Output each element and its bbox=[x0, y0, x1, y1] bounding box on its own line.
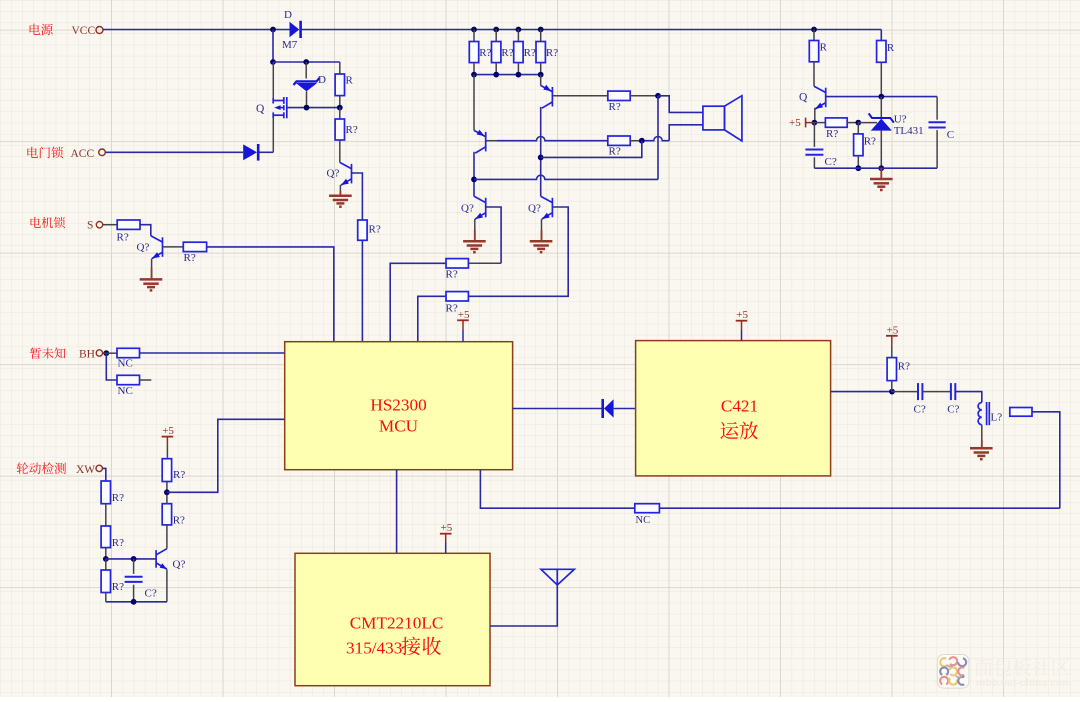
svg-text:315/433: 315/433 bbox=[346, 639, 402, 658]
wire emitter rail bbox=[106, 601, 167, 603]
wire Q emitter to +5 node bbox=[814, 108, 816, 123]
wire ACC bbox=[105, 151, 243, 153]
svg-text:+5: +5 bbox=[789, 117, 801, 129]
ground (regulator) bbox=[870, 179, 893, 190]
node ref bbox=[855, 120, 861, 126]
wire ACC diode to MOSFET bbox=[260, 151, 274, 153]
wire MCU right pin bbox=[513, 408, 602, 410]
node rail R1 bbox=[471, 27, 477, 33]
node collector tap bbox=[164, 489, 170, 495]
wire divider bbox=[105, 504, 107, 526]
wire VCC rail left of D bbox=[103, 29, 290, 31]
svg-text:+5: +5 bbox=[441, 522, 453, 534]
svg-text:R?: R? bbox=[826, 128, 838, 140]
wire ground stem bbox=[880, 168, 882, 179]
svg-text:HS2300: HS2300 bbox=[370, 396, 426, 415]
resistor NC (BH branch, open) bbox=[117, 375, 140, 384]
wire MOSFET source to sub-rail bbox=[272, 62, 274, 98]
svg-text:R?: R? bbox=[501, 47, 513, 59]
IC CMT2210LC receiver block bbox=[295, 553, 490, 685]
node speaker bottom net bbox=[639, 138, 645, 144]
svg-text:Q?: Q? bbox=[461, 203, 474, 215]
svg-text:C?: C? bbox=[145, 588, 157, 600]
svg-text:ACC: ACC bbox=[71, 148, 95, 160]
svg-text:R?: R? bbox=[173, 515, 185, 527]
svg-text:R?: R? bbox=[479, 47, 491, 59]
wire R? to MCU top pin bbox=[207, 247, 334, 342]
resistor NC (bus series) bbox=[635, 504, 660, 513]
inductor L? bbox=[978, 402, 989, 425]
node TL431 anode bbox=[878, 165, 884, 171]
resistor R? (parallel bank 4) bbox=[540, 30, 542, 42]
svg-text:+5: +5 bbox=[736, 309, 748, 321]
wire bus to right riser bbox=[659, 507, 1059, 509]
svg-text:Q: Q bbox=[256, 103, 265, 115]
ground (output NPN right) bbox=[530, 241, 553, 252]
wire diode to C421 bbox=[614, 408, 636, 410]
svg-text:S: S bbox=[87, 219, 93, 231]
wire to base node bbox=[105, 548, 107, 559]
wire speaker-net down to feedback bbox=[657, 96, 659, 180]
wire Q?D base right-down bbox=[468, 207, 568, 296]
wire MCU bottom pin to bus bbox=[480, 470, 634, 509]
IC HS2300 MCU block bbox=[285, 342, 513, 470]
node PNP-A collector bbox=[471, 177, 477, 183]
svg-text:C?: C? bbox=[914, 403, 926, 415]
node PNP-B collector tap bbox=[538, 155, 544, 161]
node rail R4 bbox=[538, 27, 544, 33]
wire BH to NC bbox=[103, 352, 117, 354]
wire Q? base to R? chain bbox=[352, 173, 363, 220]
resistor R? (speaker top) bbox=[608, 91, 630, 100]
svg-text:R: R bbox=[346, 75, 354, 87]
svg-text:+5: +5 bbox=[162, 425, 174, 437]
resistor R? (output pullup) bbox=[887, 358, 896, 381]
resistor R? (ref divider top) bbox=[814, 122, 825, 124]
capacitor C? (base filter) bbox=[133, 559, 135, 574]
wire speaker top lead bbox=[658, 96, 703, 113]
resistor R? (ref divider bottom) bbox=[857, 123, 859, 134]
resistor R? (Q?D base) bbox=[446, 292, 468, 301]
wire VCC rail right of D bbox=[302, 29, 881, 31]
wire BH branch down bbox=[106, 353, 117, 380]
svg-text:NC: NC bbox=[118, 358, 133, 370]
wire base line bbox=[106, 558, 156, 560]
wire base line into R? bbox=[468, 262, 501, 264]
wire Q? emitter down bbox=[166, 569, 168, 601]
wire Q? emitter to ground bbox=[151, 259, 153, 280]
svg-text:BH: BH bbox=[79, 349, 95, 361]
node speaker top net bbox=[655, 93, 661, 99]
node gate-R junction bbox=[337, 105, 343, 111]
svg-text:XW: XW bbox=[76, 464, 95, 476]
svg-text:R?: R? bbox=[546, 47, 558, 59]
svg-text:R?: R? bbox=[609, 101, 621, 113]
wire Q base line to cap C bbox=[826, 96, 937, 98]
wire R? to MCU bbox=[418, 296, 446, 341]
svg-text:R?: R? bbox=[173, 469, 185, 481]
ground (S input) bbox=[140, 279, 163, 290]
resistor R? (base to emitter) bbox=[105, 559, 107, 570]
svg-text:C?: C? bbox=[825, 156, 837, 168]
wire C421 output bbox=[831, 391, 892, 393]
wire to ref node bbox=[847, 122, 858, 124]
wire feedback line y179 with hop bbox=[474, 175, 658, 179]
transistor Q (PNP lower) bbox=[473, 75, 475, 131]
node rail cap bbox=[131, 599, 137, 605]
wire R? to Q? collector bbox=[140, 225, 151, 236]
resistor R? (S input) bbox=[117, 220, 140, 229]
wire PNP-A base line y140.7 with hops bbox=[487, 140, 498, 142]
node +5 out bbox=[812, 120, 818, 126]
wire PNP-B base to R? bbox=[552, 95, 607, 97]
node BH bbox=[103, 350, 109, 356]
svg-text:R?: R? bbox=[112, 581, 124, 593]
svg-text:TL431: TL431 bbox=[894, 125, 924, 137]
speaker LS bbox=[703, 96, 742, 141]
wire tap to MCU left pin bbox=[167, 419, 285, 492]
resistor R? (parallel bank 3) bbox=[517, 30, 519, 42]
resistor R? (divider mid) bbox=[101, 526, 110, 548]
svg-text:NC: NC bbox=[118, 385, 133, 397]
wire Q? base to R? bbox=[163, 246, 184, 248]
label 轮动检测 bbox=[17, 462, 66, 474]
IC C421 op-amp block bbox=[636, 341, 831, 476]
wire Q?C base right-down bbox=[486, 207, 501, 263]
resistor R? (speaker bottom) bbox=[608, 136, 630, 145]
svg-text:R?: R? bbox=[446, 303, 458, 315]
wire NC to MCU left pin bbox=[140, 352, 285, 354]
IC U? TL431 shunt regulator bbox=[880, 97, 882, 118]
wire R? to speaker top lead bbox=[630, 95, 658, 97]
wire port to bottom bus bbox=[1032, 412, 1060, 508]
svg-text:R?: R? bbox=[609, 146, 621, 158]
node sub-rail left bbox=[270, 59, 276, 65]
capacitor C? (output filter) bbox=[813, 123, 815, 147]
node zener top bbox=[303, 59, 309, 65]
wire C2 to L bbox=[955, 392, 982, 403]
diode (detector) bbox=[601, 399, 604, 418]
svg-text:Q?: Q? bbox=[173, 559, 186, 571]
node VCC-rail junction bbox=[270, 27, 276, 33]
label 电门锁 bbox=[27, 147, 63, 159]
svg-text:+5: +5 bbox=[887, 324, 899, 336]
svg-text:Q?: Q? bbox=[327, 168, 340, 180]
wire R? to MCU pin bbox=[361, 240, 363, 341]
ground (MOSFET driver) bbox=[329, 196, 352, 207]
diode (ACC blocking) bbox=[243, 144, 257, 160]
wire speaker bottom lead bbox=[669, 125, 703, 141]
resistor R? (Q? collector) bbox=[339, 108, 341, 119]
svg-text:M7: M7 bbox=[282, 39, 298, 51]
svg-text:C421: C421 bbox=[721, 397, 758, 416]
svg-text:U?: U? bbox=[894, 114, 907, 126]
wire to C1 bbox=[892, 391, 918, 393]
wire Q? emitter to ground bbox=[339, 185, 341, 196]
resistor R? (Q?C base) bbox=[446, 259, 468, 268]
svg-text:D: D bbox=[284, 9, 292, 21]
wire C1-C2 bbox=[922, 391, 951, 393]
svg-text:R?: R? bbox=[898, 361, 910, 373]
resistor R? (driver base series) bbox=[358, 220, 367, 240]
zener diode D (gate protection) bbox=[305, 62, 307, 79]
node cap top bbox=[131, 556, 137, 562]
wire ref to TL431 bbox=[858, 122, 877, 124]
wire gate line y107.6 bbox=[288, 107, 340, 109]
svg-text:R: R bbox=[887, 42, 895, 54]
capacitor C? (coupling 2) bbox=[951, 383, 955, 400]
node bank out 3 bbox=[516, 72, 522, 78]
resistor R? (parallel bank 1) bbox=[473, 30, 475, 42]
ground (antenna filter) bbox=[970, 448, 993, 459]
svg-text:MCU: MCU bbox=[379, 417, 419, 436]
svg-text:R?: R? bbox=[369, 224, 381, 236]
resistor R? (divider top) bbox=[101, 481, 110, 504]
svg-text:D: D bbox=[318, 74, 326, 86]
wire PNP-A collector down bbox=[473, 152, 475, 197]
transistor Q (PNP upper, speaker top) bbox=[540, 75, 542, 86]
ground (output NPN left) bbox=[463, 241, 486, 252]
capacitor C? (coupling 1) bbox=[918, 383, 922, 400]
node rail R2 bbox=[493, 27, 499, 33]
node bank out 2 bbox=[493, 72, 499, 78]
wire Q?D emitter to ground bbox=[541, 219, 543, 241]
svg-text:+5: +5 bbox=[458, 309, 470, 321]
svg-text:R?: R? bbox=[184, 252, 196, 264]
wire rail corner to R2 bbox=[880, 30, 882, 41]
resistor R (TL431 feed) bbox=[877, 41, 886, 63]
svg-text:R?: R? bbox=[112, 537, 124, 549]
svg-text:R?: R? bbox=[112, 492, 124, 504]
watermark logo 面包板社区 bbox=[937, 655, 969, 689]
svg-text:CMT2210LC: CMT2210LC bbox=[350, 614, 444, 633]
wire S to R? bbox=[103, 224, 117, 226]
wire Q? collector up bbox=[166, 525, 168, 549]
wire sub-rail y62 bbox=[273, 61, 340, 63]
svg-text:NC: NC bbox=[636, 515, 651, 526]
node divider bottom bbox=[855, 165, 861, 171]
svg-text:C?: C? bbox=[947, 403, 959, 415]
label 暂未知 bbox=[30, 347, 66, 358]
svg-text:R: R bbox=[820, 42, 828, 54]
svg-text:Q: Q bbox=[799, 91, 808, 103]
node output tap bbox=[889, 389, 895, 395]
wire MCU to CMT bbox=[396, 470, 398, 554]
wire collector node bbox=[166, 482, 168, 504]
node reg R1 top bbox=[811, 27, 817, 33]
svg-text:VCC: VCC bbox=[72, 25, 96, 37]
svg-text:C: C bbox=[947, 129, 954, 141]
capacitor C (base bypass) bbox=[936, 97, 938, 120]
port (antenna feed) bbox=[1010, 408, 1032, 417]
node base node bbox=[103, 556, 109, 562]
node bank out 4 bbox=[538, 72, 544, 78]
label 电源 bbox=[30, 24, 53, 36]
resistor R? (collector load high) bbox=[162, 459, 171, 482]
wire R? to bottom-lead node bbox=[630, 140, 642, 142]
wire R? to MCU bbox=[390, 263, 446, 341]
watermark text bbox=[975, 658, 1069, 676]
wire XW down bbox=[103, 468, 106, 481]
node rail R3 bbox=[516, 27, 522, 33]
svg-text:Q?: Q? bbox=[137, 242, 150, 254]
wire NC open stub bbox=[140, 379, 152, 381]
svg-text:Q?: Q? bbox=[528, 203, 541, 215]
wire PNP-B collector down bbox=[540, 107, 542, 196]
resistor R? (collector load low) bbox=[162, 504, 171, 525]
node bank out 1 bbox=[471, 72, 477, 78]
wire CMT to antenna bbox=[490, 585, 557, 626]
svg-text:R?: R? bbox=[524, 47, 536, 59]
svg-text:R?: R? bbox=[346, 124, 358, 136]
resistor R? (parallel bank 2) bbox=[495, 30, 497, 42]
svg-text:R?: R? bbox=[446, 269, 458, 281]
wire VCC to sub-rail bbox=[272, 30, 274, 63]
resistor NC (BH series) bbox=[117, 348, 140, 357]
svg-text:R?: R? bbox=[117, 232, 129, 244]
label 电机锁 bbox=[31, 217, 66, 228]
resistor R? (base output) bbox=[183, 242, 206, 251]
svg-text:R?: R? bbox=[864, 136, 876, 148]
wire bottom net to PNP-B collector tap bbox=[541, 141, 642, 158]
resistor R (reg collector) bbox=[813, 30, 815, 41]
node zener bottom bbox=[304, 105, 310, 111]
wire resistor-bank bottom rail bbox=[474, 74, 541, 76]
antenna bbox=[541, 569, 574, 585]
diode D M7 bbox=[290, 22, 300, 38]
svg-text:L?: L? bbox=[991, 412, 1003, 424]
node base-R junction bbox=[878, 94, 884, 100]
svg-text:mbb.eet-china.com: mbb.eet-china.com bbox=[976, 677, 1072, 689]
wire Q?C emitter to ground bbox=[474, 219, 476, 241]
wire MOSFET drain down to ACC diode bbox=[272, 118, 274, 152]
resistor R (gate pull-up) bbox=[339, 62, 341, 74]
wire regulator bottom rail bbox=[814, 167, 937, 169]
wire L to ground bbox=[981, 425, 983, 449]
